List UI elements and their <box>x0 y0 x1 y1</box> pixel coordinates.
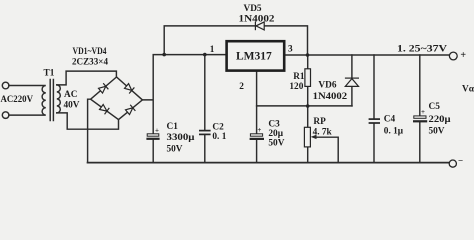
diode VD5 (points left, cathode bar at left) <box>255 22 264 31</box>
svg-text:220μ: 220μ <box>429 115 452 125</box>
bridge diode D4 (bottom-right edge) <box>125 105 135 116</box>
svg-text:AC: AC <box>64 90 77 100</box>
svg-text:40V: 40V <box>64 100 80 110</box>
svg-text:Vα: Vα <box>462 84 474 94</box>
diode VD6 (points up, cathode bar on top) <box>345 78 359 86</box>
svg-text:1N4002: 1N4002 <box>313 92 348 102</box>
wire bridge minus output to ground rail <box>88 99 91 162</box>
capacitor C4 leads <box>373 55 375 163</box>
svg-text:1N4002: 1N4002 <box>239 15 275 25</box>
svg-text:0. 1: 0. 1 <box>212 132 226 142</box>
svg-text:120: 120 <box>289 82 303 92</box>
capacitor C5 leads <box>419 55 421 163</box>
output terminal - <box>449 160 456 167</box>
capacitor C2 plates <box>199 130 211 132</box>
bridge rectifier VD1~VD4 diamond <box>91 77 143 120</box>
svg-text:3: 3 <box>288 44 293 54</box>
svg-text:C3: C3 <box>268 120 280 130</box>
wire secondary bottom lead to bridge bottom vertex <box>57 113 119 129</box>
wire C1 bottom lead <box>152 140 154 163</box>
svg-text:50V: 50V <box>268 139 284 149</box>
svg-text:1: 1 <box>210 45 215 55</box>
wire bridge plus output riser to pin 1 and C1 <box>142 55 226 134</box>
svg-text:VD6: VD6 <box>318 81 336 91</box>
bridge diode D2 (top-right edge) <box>124 83 134 94</box>
wire secondary top lead to bridge top vertex <box>57 71 117 85</box>
svg-text:3300μ: 3300μ <box>167 133 196 143</box>
svg-text:AC220V: AC220V <box>1 95 34 105</box>
svg-text:−: − <box>458 155 463 165</box>
svg-text:50V: 50V <box>429 126 445 136</box>
svg-text:+: + <box>257 126 261 134</box>
wire pin 2 down through C3 node <box>256 71 258 134</box>
transformer T1 core <box>50 80 53 121</box>
svg-text:2CZ33×4: 2CZ33×4 <box>72 57 108 67</box>
svg-text:R1: R1 <box>293 72 305 82</box>
svg-text:VD5: VD5 <box>244 4 262 14</box>
wire ADJ line pin2 to VD6 <box>257 105 352 107</box>
ground rail <box>88 162 450 164</box>
svg-text:+: + <box>460 50 466 61</box>
bridge diode D1 (left-top edge) <box>98 83 108 94</box>
svg-text:LM317: LM317 <box>236 51 272 63</box>
potentiometer RP leads <box>307 106 309 163</box>
potentiometer RP wiper arrow <box>311 135 317 139</box>
bridge diode D3 (left-bottom edge) <box>99 104 109 115</box>
svg-text:RP: RP <box>313 117 326 127</box>
svg-text:1. 25~37V: 1. 25~37V <box>397 44 447 55</box>
svg-text:50V: 50V <box>167 144 183 154</box>
wire C3 bottom lead <box>256 140 258 163</box>
junction node dots <box>162 53 166 57</box>
potentiometer RP wiper wire <box>316 137 338 162</box>
wire output line pin3 to terminal <box>284 54 449 56</box>
svg-text:4. 7k: 4. 7k <box>313 128 333 138</box>
diode VD6 leads <box>351 55 353 106</box>
svg-text:+: + <box>421 108 425 116</box>
capacitor C1 plates <box>147 134 159 136</box>
svg-text:C1: C1 <box>167 122 179 132</box>
capacitor C2 leads <box>204 55 206 163</box>
transformer T1 secondary winding <box>57 85 61 113</box>
terminal AC input upper <box>2 82 9 89</box>
capacitor C3 plates <box>250 134 262 136</box>
output terminal + <box>449 52 457 60</box>
svg-text:VD1~VD4: VD1~VD4 <box>73 47 107 57</box>
svg-text:C5: C5 <box>429 102 441 112</box>
terminal AC input lower <box>2 112 9 119</box>
capacitor C5 plates <box>414 116 426 118</box>
wire VD5 loop <box>164 26 307 55</box>
potentiometer RP body <box>304 127 310 147</box>
resistor R1 leads <box>307 55 309 106</box>
svg-text:2: 2 <box>239 82 244 92</box>
svg-text:T1: T1 <box>44 68 55 78</box>
resistor R1 body <box>305 69 311 87</box>
IC LM317 <box>227 41 285 70</box>
svg-text:C4: C4 <box>384 115 396 125</box>
capacitor C4 plates <box>369 118 380 120</box>
transformer T1 primary winding <box>9 86 46 116</box>
svg-text:+: + <box>155 127 159 135</box>
svg-text:0. 1μ: 0. 1μ <box>384 126 404 136</box>
